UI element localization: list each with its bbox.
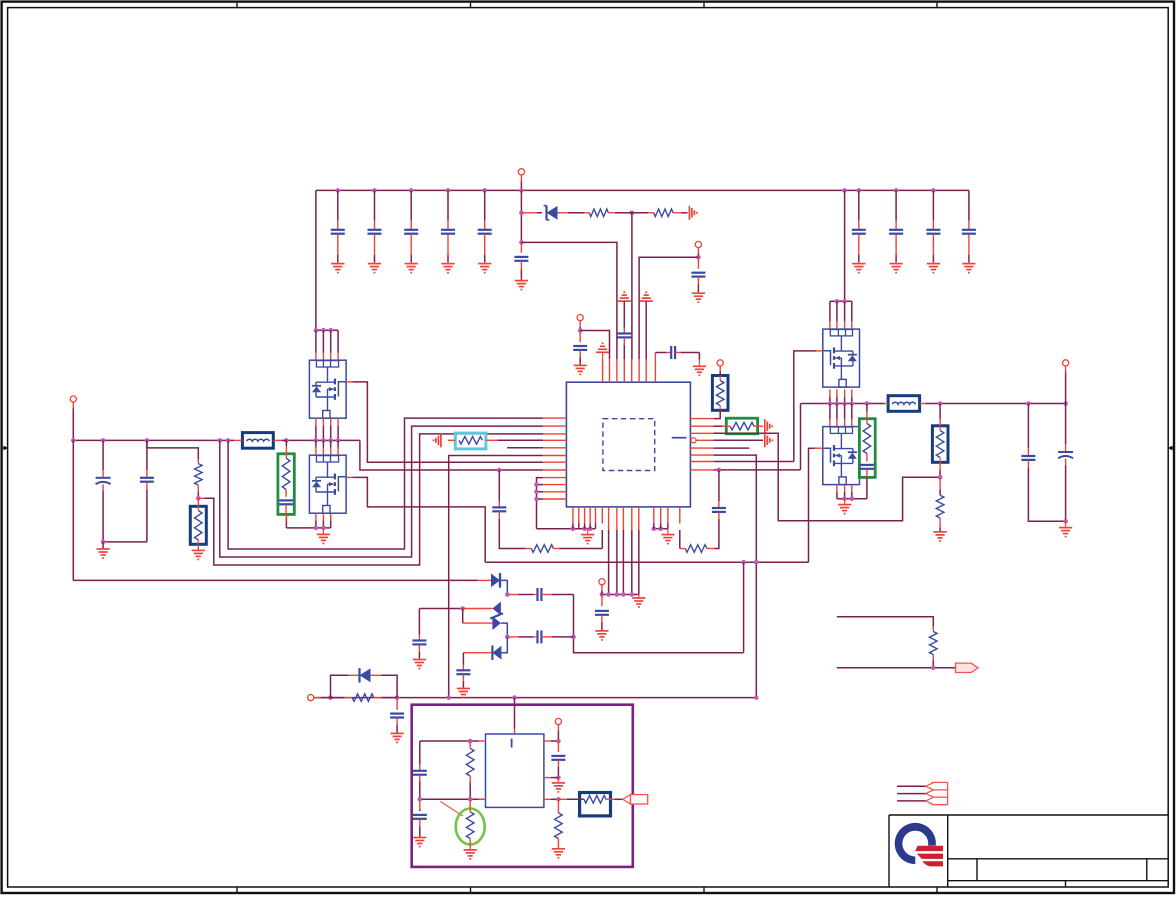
wires Q2 source down bbox=[316, 513, 331, 528]
diode D6 bypass bbox=[331, 668, 398, 698]
capacitor C2 bbox=[368, 190, 382, 262]
ground bottom-right bbox=[661, 529, 674, 544]
wire source tee left bbox=[287, 526, 331, 531]
capacitor C28 bbox=[456, 653, 470, 688]
ground inverted B bbox=[640, 292, 653, 359]
snubber box left bbox=[278, 454, 294, 515]
capacitor C8 bbox=[926, 190, 940, 262]
port P2 bbox=[695, 241, 701, 257]
wire bottom-left tie bbox=[537, 526, 596, 531]
wire source tee right bbox=[837, 497, 867, 502]
wires Q4 source down bbox=[837, 485, 852, 499]
ground for C11 bbox=[692, 293, 705, 302]
wire U2 right pin1 bbox=[544, 739, 561, 744]
port arrow out bbox=[623, 795, 648, 804]
inductor L1 box bbox=[242, 433, 273, 449]
wire output rail bbox=[925, 401, 1067, 406]
wire P2 to IC bbox=[639, 257, 698, 359]
port P8 bbox=[308, 695, 314, 701]
capacitor C27 bbox=[507, 630, 573, 643]
port P7 output bbox=[1063, 360, 1069, 404]
wire P4 to IC bbox=[580, 331, 609, 360]
node feedback bbox=[938, 462, 943, 479]
resistor R10 bbox=[504, 530, 602, 552]
wires pins to tie right bbox=[654, 524, 668, 529]
wire bus VIN-B bbox=[220, 426, 543, 557]
border zone ticks top bbox=[237, 3, 937, 8]
wire feedback path bbox=[714, 433, 941, 520]
transistor Q1 high-side left bbox=[309, 360, 346, 418]
wire switch sense right bbox=[714, 468, 801, 473]
ground C30 bbox=[413, 838, 426, 847]
annotation pointer bbox=[440, 801, 462, 816]
inductor L1 coil bbox=[247, 439, 270, 441]
resistor R12 boxed bbox=[932, 404, 948, 463]
wire D1 input bbox=[73, 440, 478, 580]
resistor R2 bbox=[648, 209, 688, 217]
ground for C7 bbox=[890, 264, 903, 273]
wire switch node rail left bbox=[284, 438, 360, 443]
node pump mid bbox=[505, 635, 510, 640]
wire U2 right pin2 bbox=[544, 777, 559, 779]
resistor R7 boxed bbox=[712, 376, 728, 411]
capacitor C29 bbox=[413, 741, 427, 799]
ground for C8 bbox=[927, 264, 940, 273]
capacitor C19 bbox=[492, 468, 506, 549]
wires rail to Q2 drain bbox=[316, 440, 338, 455]
resistor R19 bbox=[930, 627, 938, 668]
wire L1 leads bbox=[234, 439, 286, 441]
wire port column bbox=[519, 190, 524, 244]
wire loop bottom bbox=[837, 666, 956, 671]
highlight ellipse bbox=[456, 809, 485, 845]
wires pins to tie bbox=[573, 524, 596, 529]
capacitor C7 bbox=[889, 190, 903, 262]
node P2 bbox=[696, 255, 701, 260]
port arrow right bbox=[956, 663, 979, 672]
resistor R9 bbox=[680, 530, 715, 552]
wire bottom-right tie bbox=[652, 526, 668, 531]
regulator block outline bbox=[412, 705, 633, 867]
wire rail drop left bbox=[315, 190, 317, 330]
resistor R14 bbox=[314, 694, 397, 702]
resistor R6 bbox=[448, 437, 543, 445]
ground for C9 bbox=[962, 264, 975, 273]
diode D3 bbox=[463, 609, 508, 637]
capacitor C12 snubber bbox=[279, 500, 293, 514]
resistor R3 snubber bbox=[282, 440, 290, 496]
capacitor C14 input bbox=[103, 440, 154, 542]
capacitor C5 bbox=[478, 190, 492, 262]
wire R7 to IC bbox=[714, 410, 721, 418]
resistor R6 highlighted box bbox=[455, 433, 486, 449]
ground Q4 source bbox=[838, 499, 851, 514]
wire gate Q2 bbox=[346, 477, 485, 562]
resistor R13 bbox=[936, 477, 944, 527]
capacitor C21 snubber bbox=[860, 465, 874, 499]
wire NC right bbox=[714, 447, 750, 449]
IC U1 body bbox=[566, 382, 690, 507]
ground for C3 bbox=[405, 264, 418, 273]
wire reg supply bbox=[514, 698, 516, 734]
resistor R15 bbox=[466, 741, 474, 799]
resistor R16 bbox=[466, 799, 474, 849]
diode D4 bbox=[463, 637, 507, 660]
ground R5 bbox=[192, 544, 205, 559]
ground for C6 bbox=[852, 264, 865, 273]
resistor R5 boxed bbox=[190, 498, 206, 544]
capacitor C10 bbox=[514, 242, 528, 279]
resistor R17 bbox=[555, 799, 563, 848]
transistor Q4 low-side right bbox=[823, 427, 860, 485]
ground rotated R8 bbox=[765, 419, 773, 433]
capacitor C24 bbox=[390, 698, 404, 733]
ground bottom-left bbox=[581, 529, 594, 544]
wire rail drop right bbox=[844, 190, 846, 301]
wire charge pump riser bbox=[743, 562, 745, 652]
wire drain tee right bbox=[830, 299, 852, 304]
ground rotated left R6 bbox=[433, 433, 441, 447]
IC inverted pin bbox=[691, 438, 714, 443]
wire gate Q1 bbox=[346, 382, 543, 462]
ground R13 bbox=[934, 528, 947, 541]
wire riser to rail bbox=[800, 404, 802, 470]
node junction R1-R2 bbox=[627, 211, 648, 216]
ground rotated right bbox=[689, 206, 697, 220]
connector fan symbol bbox=[926, 782, 948, 804]
capacitor C20 bbox=[595, 595, 609, 631]
junction dots top rail bbox=[336, 188, 936, 193]
wire bottom bus bbox=[311, 695, 759, 700]
wires Q1 source to switch rail bbox=[316, 418, 338, 440]
ground C28 bbox=[457, 689, 470, 698]
port P3 input bbox=[70, 396, 76, 441]
capacitor C26 bbox=[412, 609, 426, 659]
ground C24 bbox=[391, 733, 404, 742]
capacitor C30 bbox=[413, 799, 427, 836]
resistor R11 snubber bbox=[863, 404, 871, 462]
wires tee to Q1 drain bbox=[316, 330, 338, 360]
capacitor C9 bbox=[962, 190, 976, 262]
port P1 VIN bbox=[518, 169, 524, 191]
IC U1 pin1 mark bbox=[672, 437, 687, 439]
capacitor C1 bbox=[331, 190, 345, 262]
wire pin to bus right bbox=[714, 455, 759, 697]
resistor R1 bbox=[568, 209, 627, 217]
ground R17 bbox=[552, 849, 565, 858]
capacitor C23 output bbox=[1058, 404, 1073, 522]
wires AGND pins down bbox=[609, 530, 639, 595]
wire gate drive bus bbox=[485, 560, 808, 565]
port P4 bbox=[577, 315, 583, 333]
ground for C4 bbox=[441, 264, 454, 273]
ground for C1 bbox=[331, 264, 344, 273]
wire pump col bbox=[571, 595, 743, 653]
port P9 bbox=[555, 718, 561, 741]
resistor R8 boxed green bbox=[714, 418, 763, 434]
regulator U2 body bbox=[486, 734, 544, 807]
transistor Q3 high-side right bbox=[823, 329, 860, 387]
wire gate Q4 bbox=[809, 448, 823, 562]
border zone ticks bottom bbox=[237, 887, 937, 892]
ground C20 bbox=[595, 631, 608, 640]
IC left pins bbox=[543, 418, 566, 499]
wire lower-left pin group bbox=[534, 478, 543, 529]
node D1 cathode bbox=[505, 592, 510, 597]
capacitor C4 bbox=[441, 190, 455, 262]
capacitor C16 bbox=[617, 301, 631, 359]
capacitor C22 output bbox=[1021, 404, 1065, 522]
capacitor C17 bbox=[655, 346, 699, 360]
wire gate Q3 bbox=[794, 351, 823, 462]
wire U2 out pin bbox=[544, 797, 561, 802]
wire switch rail right bbox=[801, 401, 885, 406]
wires connector fan bbox=[897, 786, 926, 801]
ground for C5 bbox=[478, 264, 491, 273]
capacitor C31 bbox=[551, 741, 565, 780]
node divider mid bbox=[196, 496, 201, 501]
ground output caps bbox=[1059, 519, 1072, 537]
ground AGND bbox=[632, 595, 645, 608]
diode D1 bbox=[478, 573, 508, 594]
resistor R4 divider bbox=[195, 459, 203, 498]
wire inv pin to ground bbox=[714, 439, 763, 441]
wire NC pin bbox=[507, 447, 543, 449]
wires tee to Q3 drain bbox=[830, 301, 852, 329]
capacitor C25 bbox=[507, 588, 573, 601]
wire U2 left pin bbox=[420, 739, 486, 744]
wire drain tee left bbox=[314, 328, 339, 333]
ground input caps bbox=[97, 540, 110, 558]
capacitor C11 bbox=[691, 257, 705, 292]
ground inverted A bbox=[618, 292, 631, 301]
capacitor C3 bbox=[404, 190, 418, 262]
diode D5 bbox=[521, 206, 568, 220]
wire divider top bbox=[147, 440, 198, 459]
diode D2 bbox=[463, 602, 501, 616]
capacitor C18 bbox=[712, 470, 726, 549]
ground for C10 bbox=[515, 281, 528, 290]
ground Q2 source bbox=[317, 528, 330, 544]
ground for C2 bbox=[368, 264, 381, 273]
wire switch sense bbox=[360, 440, 543, 470]
snubber box right bbox=[859, 419, 875, 478]
resistor R18 boxed bbox=[558, 793, 622, 816]
inductor L2 coil bbox=[892, 402, 915, 404]
wire snubber to tee bbox=[285, 514, 287, 528]
wire L2 leads bbox=[884, 403, 925, 405]
company logo bbox=[895, 823, 943, 867]
ground C15 bbox=[574, 365, 587, 374]
capacitor C13 input bbox=[96, 440, 111, 542]
IC right pins bbox=[690, 419, 713, 470]
wire input rail bbox=[71, 438, 234, 443]
capacitor C6 bbox=[852, 190, 866, 262]
IC U1 thermal pad bbox=[603, 419, 655, 471]
wire reg mid node bbox=[418, 797, 486, 802]
border center arrow left bbox=[3, 446, 8, 451]
IC top pins bbox=[603, 359, 656, 382]
ground rotated inv pin bbox=[765, 433, 773, 447]
wires Q3 source to rail bbox=[830, 389, 852, 403]
wires rail to Q4 drain bbox=[830, 404, 852, 427]
ground inverted pin1 bbox=[596, 343, 609, 359]
wire diode node to IC bbox=[631, 213, 633, 360]
wire top VIN rail bbox=[316, 189, 969, 191]
port P6 bbox=[599, 579, 605, 595]
wire loop top bbox=[837, 617, 934, 627]
wire D2 net bbox=[419, 606, 465, 611]
IC bottom pins bbox=[573, 507, 680, 530]
ground C26 bbox=[413, 660, 426, 669]
title block grid bbox=[889, 815, 1168, 887]
wire AGND tie bbox=[600, 592, 639, 597]
ground R16 bbox=[464, 850, 477, 859]
wire bus divider sense bbox=[198, 434, 543, 565]
wire pin to bottom bus bbox=[449, 456, 543, 698]
border center arrow right bbox=[1168, 446, 1173, 451]
port P5 bbox=[717, 360, 723, 376]
inductor L2 box bbox=[888, 396, 920, 412]
wire gate drive top right bbox=[714, 461, 794, 463]
wire bus VIN-A bbox=[228, 418, 543, 549]
wire VCC to IC pin bbox=[521, 242, 617, 359]
capacitor C15 bbox=[573, 331, 587, 365]
transistor Q2 low-side left bbox=[309, 455, 346, 513]
ground C17 bbox=[693, 360, 706, 376]
ground C31 bbox=[552, 778, 565, 792]
